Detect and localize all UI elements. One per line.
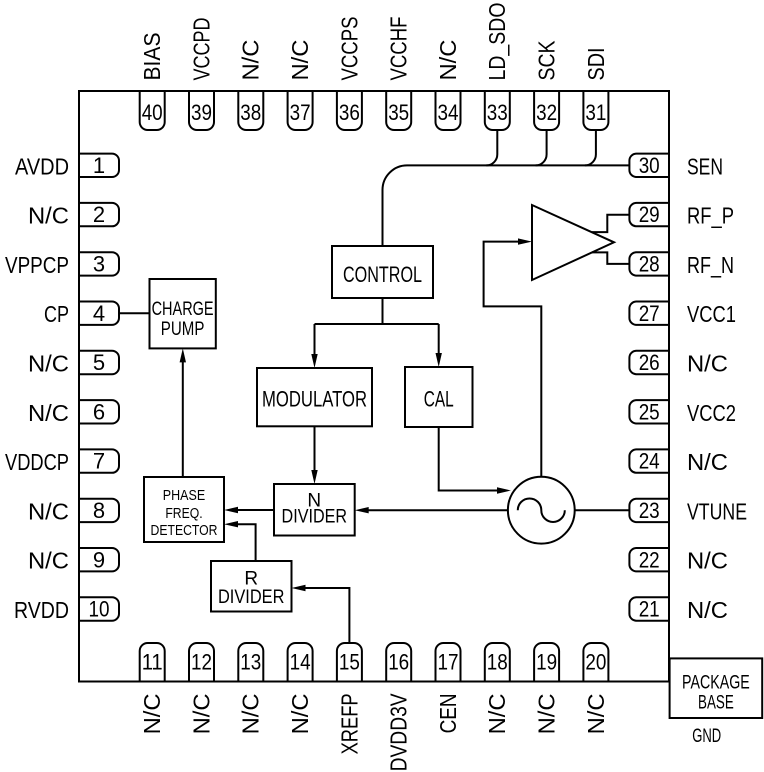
svg-text:DVDD3V: DVDD3V bbox=[386, 693, 412, 772]
svg-text:VCC2: VCC2 bbox=[687, 400, 736, 426]
svg-text:14: 14 bbox=[290, 650, 311, 675]
svg-text:18: 18 bbox=[487, 650, 508, 675]
wire MODULATOR to N DIVIDER with arrow bbox=[314, 426, 316, 472]
pin 7 box bbox=[79, 449, 119, 472]
svg-text:N/C: N/C bbox=[687, 449, 728, 475]
svg-text:N/C: N/C bbox=[238, 693, 264, 734]
svg-text:23: 23 bbox=[639, 498, 660, 523]
pin 17 box bbox=[436, 643, 461, 682]
block: MODULATOR bbox=[257, 368, 372, 426]
arrow into CAL bbox=[436, 353, 442, 367]
pin 16 box bbox=[386, 643, 411, 682]
pin 28 box bbox=[629, 252, 669, 275]
pin 34 box bbox=[436, 91, 461, 130]
pin 31 box bbox=[583, 91, 608, 130]
pin 21 box bbox=[629, 597, 669, 620]
wire pin32 SCK to bus bbox=[536, 130, 547, 165]
svg-text:N/C: N/C bbox=[687, 351, 728, 377]
svg-text:40: 40 bbox=[142, 100, 163, 125]
pin 38 box bbox=[238, 91, 263, 130]
pin 20 box bbox=[583, 643, 608, 682]
pin 6 box bbox=[79, 400, 119, 423]
svg-text:37: 37 bbox=[290, 100, 311, 125]
wire R DIVIDER to PFD with arrow bbox=[237, 524, 256, 561]
svg-text:N/C: N/C bbox=[238, 40, 264, 81]
svg-text:DETECTOR: DETECTOR bbox=[151, 523, 218, 539]
svg-text:PUMP: PUMP bbox=[161, 319, 205, 340]
svg-text:N/C: N/C bbox=[583, 693, 609, 734]
svg-text:SDI: SDI bbox=[583, 48, 609, 81]
svg-text:24: 24 bbox=[639, 449, 660, 474]
pin 36 box bbox=[337, 91, 362, 130]
block: R DIVIDER bbox=[211, 561, 292, 612]
wire VCO top to amplifier input with arrow bbox=[484, 242, 542, 477]
svg-text:N/C: N/C bbox=[484, 693, 510, 734]
svg-text:RF_P: RF_P bbox=[687, 203, 734, 229]
svg-text:11: 11 bbox=[142, 650, 163, 675]
wire pin4 CP to charge pump bbox=[119, 312, 150, 314]
svg-text:6: 6 bbox=[93, 399, 105, 424]
block: CAL bbox=[405, 367, 473, 427]
svg-text:N/C: N/C bbox=[28, 351, 69, 377]
block: CHARGE PUMP bbox=[150, 279, 216, 348]
svg-text:29: 29 bbox=[639, 202, 660, 227]
svg-text:VTUNE: VTUNE bbox=[687, 498, 747, 524]
pin 1 box bbox=[79, 154, 119, 177]
svg-text:13: 13 bbox=[240, 650, 261, 675]
svg-text:VCCPD: VCCPD bbox=[188, 18, 214, 81]
pin 3 box bbox=[79, 252, 119, 275]
svg-text:N/C: N/C bbox=[28, 548, 69, 574]
svg-text:N/C: N/C bbox=[188, 693, 214, 734]
svg-text:DIVIDER: DIVIDER bbox=[282, 507, 348, 528]
svg-text:N/C: N/C bbox=[139, 693, 165, 734]
pin 9 box bbox=[79, 548, 119, 571]
RF output amplifier triangle bbox=[532, 205, 614, 280]
block: PACKAGE BASE pad bbox=[670, 658, 763, 718]
svg-text:VCCPS: VCCPS bbox=[336, 17, 362, 81]
wire VCO to N DIVIDER with arrow bbox=[368, 509, 508, 511]
pin 39 box bbox=[189, 91, 214, 130]
pin 2 box bbox=[79, 203, 119, 226]
pin 12 box bbox=[189, 643, 214, 682]
pin 40 box bbox=[140, 91, 165, 130]
wire CONTROL bottom split to MODULATOR and CAL bbox=[315, 298, 439, 357]
svg-text:32: 32 bbox=[536, 100, 557, 125]
svg-text:19: 19 bbox=[536, 650, 557, 675]
svg-text:30: 30 bbox=[639, 153, 660, 178]
svg-text:SEN: SEN bbox=[687, 153, 723, 179]
wire N DIVIDER to PFD with arrow bbox=[237, 509, 274, 511]
svg-text:CP: CP bbox=[44, 301, 69, 327]
svg-text:8: 8 bbox=[93, 498, 105, 523]
pin 35 box bbox=[386, 91, 411, 130]
arrow into MODULATOR bbox=[311, 354, 317, 368]
pin 23 box bbox=[629, 499, 669, 522]
pin 37 box bbox=[288, 91, 313, 130]
svg-text:12: 12 bbox=[191, 650, 212, 675]
pin 8 box bbox=[79, 499, 119, 522]
svg-text:N/C: N/C bbox=[28, 498, 69, 524]
wire pin31 SDI to bus bbox=[585, 130, 596, 165]
pin 19 box bbox=[534, 643, 559, 682]
svg-text:PHASE: PHASE bbox=[163, 488, 206, 504]
svg-text:5: 5 bbox=[93, 350, 105, 375]
svg-text:N/C: N/C bbox=[534, 693, 560, 734]
svg-text:34: 34 bbox=[438, 100, 459, 125]
svg-text:N/C: N/C bbox=[28, 203, 69, 229]
pin 25 box bbox=[629, 400, 669, 423]
svg-text:MODULATOR: MODULATOR bbox=[262, 387, 367, 412]
pin 5 box bbox=[79, 351, 119, 374]
svg-text:10: 10 bbox=[89, 597, 110, 622]
svg-text:LD_SDO: LD_SDO bbox=[484, 3, 510, 81]
pin 33 box bbox=[485, 91, 510, 130]
pin 22 box bbox=[629, 548, 669, 571]
block: CONTROL U-control bbox=[332, 246, 433, 298]
pin 27 box bbox=[629, 302, 669, 325]
svg-text:20: 20 bbox=[585, 650, 606, 675]
svg-text:CONTROL: CONTROL bbox=[343, 262, 422, 287]
svg-text:25: 25 bbox=[639, 399, 660, 424]
svg-text:RF_N: RF_N bbox=[687, 252, 734, 278]
block: N DIVIDER bbox=[274, 484, 355, 536]
svg-text:N/C: N/C bbox=[28, 400, 69, 426]
pin 14 box bbox=[288, 643, 313, 682]
pin 18 box bbox=[485, 643, 510, 682]
wire PFD to charge pump with arrow bbox=[182, 360, 184, 477]
svg-text:9: 9 bbox=[93, 547, 105, 572]
pin 13 box bbox=[238, 643, 263, 682]
svg-text:N/C: N/C bbox=[435, 40, 461, 81]
svg-text:VCCHF: VCCHF bbox=[386, 17, 412, 81]
svg-text:21: 21 bbox=[639, 597, 660, 622]
chip body outline bbox=[79, 91, 669, 682]
svg-text:VDDCP: VDDCP bbox=[5, 449, 69, 475]
svg-text:17: 17 bbox=[438, 650, 459, 675]
wire amplifier to pin29 RF_P bbox=[592, 215, 629, 232]
svg-text:N/C: N/C bbox=[287, 693, 313, 734]
svg-text:26: 26 bbox=[639, 350, 660, 375]
svg-text:GND: GND bbox=[692, 726, 721, 747]
pin 32 box bbox=[534, 91, 559, 130]
svg-text:CAL: CAL bbox=[424, 387, 454, 412]
svg-text:N/C: N/C bbox=[287, 40, 313, 81]
svg-text:16: 16 bbox=[388, 650, 409, 675]
wire amplifier to pin28 RF_N bbox=[592, 252, 629, 264]
svg-text:1: 1 bbox=[93, 153, 105, 178]
svg-text:AVDD: AVDD bbox=[15, 153, 69, 179]
pin 4 box bbox=[79, 302, 119, 325]
svg-text:28: 28 bbox=[639, 252, 660, 277]
svg-text:RVDD: RVDD bbox=[14, 597, 69, 623]
svg-text:3: 3 bbox=[93, 252, 105, 277]
wire pin15 XREFP to R DIVIDER with arrow bbox=[305, 588, 349, 643]
svg-text:CHARGE: CHARGE bbox=[152, 299, 214, 320]
svg-text:BASE: BASE bbox=[698, 693, 734, 714]
pin 11 box bbox=[140, 643, 165, 682]
svg-text:FREQ.: FREQ. bbox=[165, 506, 202, 522]
svg-text:SCK: SCK bbox=[534, 40, 560, 81]
svg-text:33: 33 bbox=[487, 100, 508, 125]
svg-text:BIAS: BIAS bbox=[139, 33, 165, 81]
pin 24 box bbox=[629, 449, 669, 472]
wire pin33 LD_SDO to bus bbox=[486, 130, 497, 165]
svg-text:XREFP: XREFP bbox=[336, 693, 362, 754]
svg-text:DIVIDER: DIVIDER bbox=[218, 587, 285, 608]
svg-text:31: 31 bbox=[585, 100, 606, 125]
svg-text:N/C: N/C bbox=[687, 548, 728, 574]
svg-text:VCC1: VCC1 bbox=[687, 301, 736, 327]
svg-text:PACKAGE: PACKAGE bbox=[682, 673, 750, 694]
wire serial bus: pin30 SEN to CONTROL top bbox=[383, 165, 630, 246]
pin 15 box bbox=[337, 643, 362, 682]
svg-text:35: 35 bbox=[388, 100, 409, 125]
svg-text:22: 22 bbox=[639, 547, 660, 572]
svg-text:36: 36 bbox=[339, 100, 360, 125]
svg-text:N/C: N/C bbox=[687, 597, 728, 623]
VCO oscillator circle bbox=[508, 477, 575, 544]
pin 30 box bbox=[629, 154, 669, 177]
svg-text:2: 2 bbox=[93, 202, 105, 227]
block: PHASE FREQ. DETECTOR bbox=[144, 477, 224, 542]
svg-text:4: 4 bbox=[93, 301, 105, 326]
svg-text:7: 7 bbox=[93, 449, 105, 474]
wire VCO to pin23 VTUNE bbox=[575, 509, 630, 511]
svg-text:CEN: CEN bbox=[435, 693, 461, 733]
pin 29 box bbox=[629, 203, 669, 226]
svg-text:15: 15 bbox=[339, 650, 360, 675]
pin 26 box bbox=[629, 351, 669, 374]
VCO sine wave symbol bbox=[518, 498, 565, 522]
svg-text:VPPCP: VPPCP bbox=[5, 252, 69, 278]
pin 10 box bbox=[79, 597, 119, 620]
wire CAL to VCO with arrow bbox=[439, 427, 498, 491]
svg-text:39: 39 bbox=[191, 100, 212, 125]
svg-text:38: 38 bbox=[240, 100, 261, 125]
svg-text:27: 27 bbox=[639, 301, 660, 326]
